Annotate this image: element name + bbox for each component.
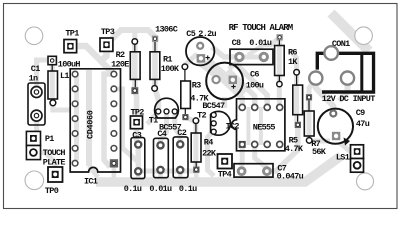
wire IC1 left column [74,75,79,160]
wire R7 vertical [307,97,312,138]
wire IC2 inner strip a [246,107,250,145]
wire stub R4 to band [194,172,199,179]
speaker LS1 pads [336,145,364,172]
wire R1 to T1 [155,42,158,110]
svg-text:L1: L1 [60,71,69,81]
wire C8 left to C5 [212,47,240,57]
resistor R2 [111,39,140,94]
resistor R1 [150,36,180,92]
wire R2-TP2-C3 chain [135,44,139,170]
svg-text:P1: P1 [45,134,54,144]
capacitor C4 [149,129,172,194]
IC2 NE555 [226,99,285,151]
capacitor C3 [124,130,145,194]
test point TP1 [64,28,79,52]
wire IC1 inner right bend [104,74,114,167]
wire IC1 right stub down [114,89,138,162]
svg-text:1n: 1n [29,73,38,83]
wire R2 top drop [132,31,137,44]
test point TP3 [100,27,115,51]
wire diagonal C6 to IC2 a [220,76,242,104]
wire R4 vertical [193,123,198,166]
wire P1 to TP0 [41,153,56,170]
svg-text:C9: C9 [356,108,365,118]
wire L1 vertical [50,60,55,104]
wire bottom long band [96,156,341,182]
wire CON1 diagonal swath [331,13,369,51]
svg-text:4.7K: 4.7K [285,144,304,154]
capacitor C2 [173,128,197,194]
svg-text:TP3: TP3 [101,27,115,37]
capacitor C7 [234,164,304,182]
svg-text:IC1: IC1 [84,177,98,187]
inductor L1 [48,56,80,105]
svg-text:PLATE: PLATE [43,158,66,168]
mounting hole bottom-left [25,171,44,190]
svg-text:56K: 56K [312,147,327,157]
svg-text:100K: 100K [161,64,180,74]
svg-text:22K: 22K [202,148,217,158]
svg-text:1306C: 1306C [155,24,178,34]
wire C8 pad bar [240,55,264,60]
wire top route TP3 to R1 [110,30,155,41]
wire T1 right to C2 [175,112,180,144]
wire CON1 pad2 to C9 [339,78,348,101]
wire stub C2 to band [178,173,183,179]
svg-text:R3: R3 [192,81,201,91]
svg-text:0.1u: 0.1u [124,184,142,194]
mounting hole top-left [25,27,43,45]
transistor T1 BC557 [149,98,182,132]
wire T1 left to C3 [147,112,158,124]
connector CON1 [309,39,375,104]
wire IC1 corner to band [89,166,98,177]
svg-text:0.047u: 0.047u [277,172,304,182]
svg-text:TP2: TP2 [131,108,145,118]
wire IC1 middle vertical [86,70,92,166]
capacitor C6 [206,63,264,100]
wire T1 mid to C4 [161,112,167,145]
test point TP2 [130,108,144,129]
wire C6 bottom stub [222,97,227,108]
wire C1 bottom to P1 [34,116,37,152]
wire C8 left pad drop [229,59,240,69]
wire IC2 pin1 to C7 [239,148,245,166]
mounting hole top-right [355,27,373,45]
resistor R6 [275,34,299,87]
svg-text:R4: R4 [204,137,213,147]
svg-text:C3: C3 [132,130,141,140]
svg-text:NE555: NE555 [253,123,276,133]
wire R5 vertical [294,75,299,121]
wire C7 right to R5 [267,128,298,171]
svg-text:12V DC INPUT: 12V DC INPUT [322,94,375,104]
wire R7 to CON1 [309,80,316,95]
wire stub C3 to band [136,174,141,179]
wire bottom caps bar [138,169,196,174]
svg-text:LS1: LS1 [336,153,350,163]
wire stub C4 to band [158,173,163,179]
wire R3 bottom to R4 [186,117,196,122]
IC socket IC1 CD4060 [70,69,120,187]
wire IC2 pin to C7 right [255,148,267,168]
wire C6 interior band [206,61,243,95]
wire IC2 inner strip b [259,107,263,145]
capacitor C8 [230,38,273,65]
resistor R4 [191,118,217,173]
svg-text:100u: 100u [246,80,264,90]
svg-text:0.01u: 0.01u [149,184,172,194]
svg-text:47u: 47u [356,119,370,129]
wire CON1 pad1 to C9 [316,78,334,112]
wire diagonal C6 to IC2 b [228,70,255,104]
connector P1 pads [26,131,65,167]
svg-text:TP4: TP4 [218,170,232,180]
svg-text:C8: C8 [232,38,241,48]
svg-text:TOUCH: TOUCH [43,148,66,158]
resistor R7 [304,94,327,157]
wire L1 bottom to IC1 [53,103,70,110]
svg-text:100uH: 100uH [58,59,81,69]
transistor T2 BC547 [197,101,230,135]
svg-text:120E: 120E [111,59,129,69]
resistor R5 [285,70,304,155]
svg-text:RF TOUCH ALARM: RF TOUCH ALARM [229,23,293,33]
resistor R3 [181,64,210,120]
capacitor C5 [186,29,217,66]
wire R6 chain [277,39,282,104]
wire C1 top to L1 [37,60,47,90]
svg-text:T1: T1 [149,116,158,126]
wire T2 to TP4 [208,131,215,176]
svg-text:0.01u: 0.01u [249,38,272,48]
wire TP1 to IC1 [77,46,113,74]
wire R6 wedge [248,39,277,55]
svg-text:R1: R1 [163,54,172,64]
wire stub IC1 sq to band [112,167,117,179]
capacitor C1 [28,64,45,125]
svg-text:CD4060: CD4060 [85,110,95,139]
wire R3 top up [185,54,197,65]
wire C9 to LS1 [340,143,352,153]
svg-text:0.1u: 0.1u [179,184,197,194]
capacitor C9 [318,108,370,146]
svg-text:TP0: TP0 [45,186,59,196]
wire diagonal C6 to IC2 c [236,64,267,104]
test point TP4 [218,154,233,180]
wire C9 sq to R7 [312,139,330,144]
wire TP3 junction [100,52,107,62]
svg-text:C6: C6 [250,70,259,80]
mounting hole bottom-right [357,173,374,190]
wire R5 top up [290,50,297,70]
svg-text:C5: C5 [186,29,195,39]
svg-text:TP1: TP1 [65,28,79,38]
wire C5 pad to C6 [200,58,216,76]
test point TP0 [45,167,63,196]
